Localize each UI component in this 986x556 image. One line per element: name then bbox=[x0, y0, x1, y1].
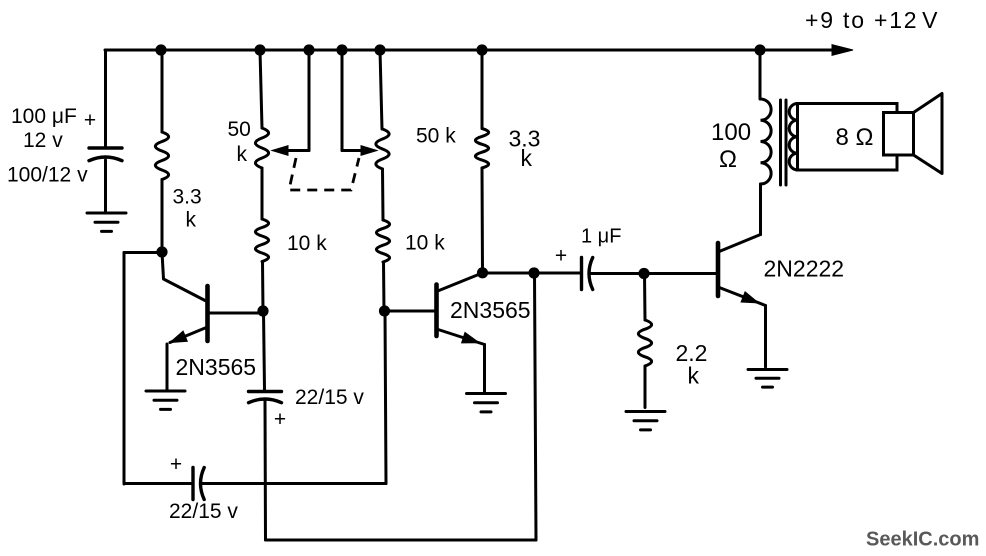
label pot1 k bbox=[237, 143, 248, 166]
ground C1 bbox=[87, 213, 126, 231]
Q1 emitter arrow bbox=[170, 331, 187, 342]
resistor R7 2.2k bbox=[638, 320, 651, 366]
transformer T1 core bbox=[781, 100, 787, 185]
node rail-4 bbox=[336, 44, 347, 55]
svg-text:k: k bbox=[521, 145, 533, 171]
ground R7 bbox=[626, 412, 665, 430]
svg-text:k: k bbox=[688, 363, 700, 389]
label 2.2 bbox=[676, 340, 708, 366]
label Q2 2N3565 bbox=[450, 297, 531, 323]
label T1 ohm bbox=[719, 146, 737, 173]
wire Q2 collector lead bbox=[437, 274, 482, 292]
wire Q1 base lead bbox=[208, 312, 262, 315]
svg-text:Ω: Ω bbox=[719, 146, 737, 173]
wire Q1 node to left bbox=[124, 251, 162, 254]
capacitor C1 100uF bbox=[89, 148, 122, 161]
wire pot1 bottom bbox=[261, 262, 265, 312]
svg-text:50: 50 bbox=[228, 118, 251, 141]
wire right vertical up bbox=[535, 274, 537, 540]
wire R6 bottom bbox=[481, 168, 485, 273]
node rail-2 bbox=[254, 44, 265, 55]
wire R6 top bbox=[481, 50, 484, 129]
dashed gang link bbox=[289, 158, 359, 190]
transistor Q1 base bar bbox=[205, 286, 210, 341]
node rail-3 bbox=[303, 44, 314, 55]
wire left vertical bbox=[123, 253, 126, 485]
svg-text:100/12 v: 100/12 v bbox=[7, 164, 88, 187]
wire Q1 emitter down bbox=[166, 344, 169, 390]
node rail-7 bbox=[754, 44, 765, 55]
svg-text:50 k: 50 k bbox=[416, 125, 456, 148]
label R6 k bbox=[521, 145, 533, 171]
svg-text:2N3565: 2N3565 bbox=[450, 297, 531, 323]
svg-text:10 k: 10 k bbox=[287, 232, 327, 255]
label Q1 2N3565 bbox=[176, 354, 257, 380]
ground Q1 bbox=[146, 391, 185, 409]
wire wiper1 vertical bbox=[308, 50, 311, 151]
label 100/12 v bbox=[7, 164, 88, 187]
watermark SeekIC.com bbox=[866, 529, 979, 551]
label 10 k left bbox=[287, 232, 327, 255]
label +9 to +12 V bbox=[805, 7, 939, 33]
svg-text:+: + bbox=[555, 245, 567, 268]
node rail-1 bbox=[155, 44, 166, 55]
Q3 emitter arrow bbox=[741, 292, 758, 303]
node output tap bbox=[528, 267, 539, 278]
label C5 plus bbox=[555, 245, 567, 268]
svg-text:8 Ω: 8 Ω bbox=[836, 124, 874, 151]
label 8 ohm bbox=[836, 124, 874, 151]
wire T1 primary bottom bbox=[759, 184, 762, 235]
speaker driver box bbox=[884, 113, 914, 156]
wire R1 bottom bbox=[161, 180, 164, 253]
wire R7 bottom bbox=[644, 366, 647, 408]
wire pot2 mid bbox=[381, 169, 385, 220]
svg-text:10 k: 10 k bbox=[405, 232, 445, 255]
wire C3 down bbox=[264, 401, 268, 540]
wire bottom feedback left bbox=[124, 482, 192, 485]
label C4 22/15 v bbox=[169, 500, 238, 523]
wire C1 top bbox=[104, 50, 107, 147]
wire V+ supply rail bbox=[105, 49, 833, 52]
wire Q1 collector lead bbox=[162, 252, 206, 301]
speaker 8 ohm box bbox=[798, 104, 898, 171]
wire pot1 top bbox=[260, 50, 262, 128]
wire Q3 emitter lead bbox=[718, 287, 766, 306]
wire pot2 bottom bbox=[382, 262, 386, 311]
label R6 3.3 bbox=[509, 126, 541, 152]
wiper2 arrowhead bbox=[361, 146, 377, 156]
svg-text:1 μF: 1 μF bbox=[581, 226, 621, 248]
capacitor C5 1uF bbox=[582, 258, 593, 290]
svg-text:k: k bbox=[237, 143, 248, 166]
node Q2 collector bbox=[477, 267, 488, 278]
label R7 k bbox=[688, 363, 700, 389]
transformer T1 primary 100 ohm bbox=[761, 99, 772, 184]
node Q1 collector bbox=[156, 246, 167, 257]
label 12 v bbox=[23, 129, 63, 152]
svg-text:12 v: 12 v bbox=[23, 129, 63, 152]
wire output mid bbox=[591, 272, 644, 275]
node Q1 base bbox=[257, 305, 268, 316]
svg-text:k: k bbox=[186, 209, 197, 232]
wiper1 arrowhead bbox=[272, 146, 288, 156]
wire Q2 emitter lead bbox=[437, 329, 485, 345]
wire T1 primary top bbox=[759, 50, 762, 99]
svg-text:3.3: 3.3 bbox=[173, 186, 202, 209]
resistor R6 3.3k bbox=[475, 129, 488, 169]
svg-text:+: + bbox=[170, 453, 182, 476]
node rail-5 bbox=[374, 44, 385, 55]
resistor 10 k left bbox=[255, 219, 268, 262]
label 50 k right bbox=[416, 125, 456, 148]
svg-text:+: + bbox=[84, 109, 96, 132]
label 1 uF bbox=[581, 226, 621, 248]
label T1 100 bbox=[711, 119, 751, 146]
label Q3 2N2222 bbox=[764, 256, 845, 282]
wire Q3 emitter down bbox=[764, 306, 767, 368]
node R7 junction bbox=[638, 268, 649, 279]
wire Q3 collector lead bbox=[718, 235, 761, 253]
label C1 plus bbox=[84, 109, 96, 132]
wire wiper2 horizontal bbox=[342, 149, 361, 152]
wire pot2 top bbox=[380, 50, 382, 129]
potentiometer 50 k right bbox=[376, 129, 389, 169]
resistor 10 k right bbox=[376, 220, 389, 262]
transistor Q3 base bar bbox=[716, 243, 721, 296]
rail arrowhead bbox=[832, 45, 853, 56]
Q2 emitter arrow bbox=[462, 332, 479, 343]
svg-text:SeekIC.com: SeekIC.com bbox=[866, 529, 979, 551]
svg-text:100: 100 bbox=[711, 119, 751, 146]
wire bottom horizontal bbox=[266, 539, 537, 542]
node rail-6 bbox=[476, 44, 487, 55]
wire C1 bottom bbox=[104, 160, 107, 212]
label R1 k bbox=[186, 209, 197, 232]
ground Q3 bbox=[748, 370, 787, 388]
wire Q3 collector up bbox=[759, 185, 762, 235]
wire Q1 emitter lead bbox=[170, 327, 208, 343]
wire wiper1 horizontal bbox=[288, 149, 309, 152]
wire Q2 base lead bbox=[385, 310, 437, 313]
wire bottom feedback right bbox=[203, 482, 387, 485]
svg-text:2N3565: 2N3565 bbox=[176, 354, 257, 380]
wire output left bbox=[483, 272, 581, 275]
label pot1 50 bbox=[228, 118, 251, 141]
label R1 3.3 bbox=[173, 186, 202, 209]
capacitor C3 22/15v bbox=[249, 392, 282, 403]
wire pot1 mid bbox=[261, 168, 264, 219]
svg-text:22/15 v: 22/15 v bbox=[169, 500, 238, 523]
label 100 uF bbox=[11, 105, 77, 128]
label 10 k right bbox=[405, 232, 445, 255]
label C4 plus bbox=[170, 453, 182, 476]
ground Q2 bbox=[467, 394, 506, 412]
speaker horn bbox=[914, 94, 943, 174]
svg-text:+9 to +12 V: +9 to +12 V bbox=[805, 7, 939, 33]
resistor R1 3.3k bbox=[155, 132, 168, 180]
transistor Q2 base bar bbox=[434, 285, 439, 337]
svg-text:+: + bbox=[274, 408, 286, 431]
wire Q2 emitter down bbox=[483, 345, 486, 392]
wire R7 top bbox=[643, 274, 647, 321]
svg-text:100 μF: 100 μF bbox=[11, 105, 77, 128]
capacitor C4 22/15v bbox=[193, 468, 204, 500]
wire output right bbox=[644, 272, 717, 275]
label C3 plus bbox=[274, 408, 286, 431]
node Q2 base bbox=[379, 305, 390, 316]
svg-text:22/15 v: 22/15 v bbox=[295, 386, 364, 409]
wire R1 top bbox=[161, 50, 164, 132]
potentiometer 50 k left bbox=[255, 128, 268, 168]
wire Q1 base to C3 bbox=[264, 311, 265, 390]
wire up to Q2 base bbox=[385, 311, 386, 484]
svg-text:2N2222: 2N2222 bbox=[764, 256, 845, 282]
label C3 22/15 v bbox=[295, 386, 364, 409]
wire wiper2 vertical bbox=[341, 50, 344, 151]
transformer T1 secondary bbox=[789, 104, 797, 170]
